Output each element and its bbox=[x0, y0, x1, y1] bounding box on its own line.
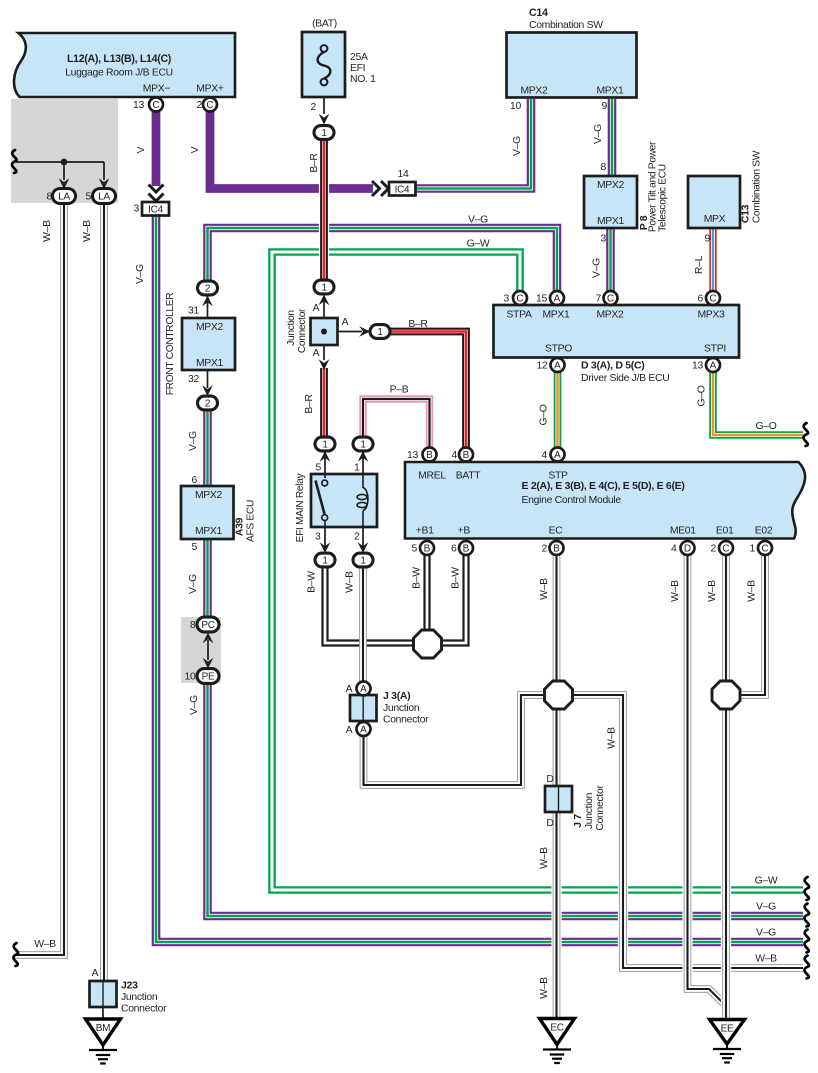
svg-text:10: 10 bbox=[510, 101, 521, 112]
svg-text:A: A bbox=[346, 684, 353, 695]
svg-text:W–B: W–B bbox=[539, 977, 550, 999]
chevron IC4 14 right bbox=[372, 181, 389, 196]
wire V thick: MPX- to chevron bbox=[152, 110, 161, 186]
svg-text:STP: STP bbox=[548, 471, 568, 482]
pin J3 A lower bbox=[357, 722, 371, 736]
svg-text:B: B bbox=[463, 450, 470, 461]
svg-text:3: 3 bbox=[504, 294, 510, 305]
break right G-O bbox=[803, 423, 808, 446]
svg-text:G–O: G–O bbox=[755, 421, 776, 432]
svg-text:Telescopic ECU: Telescopic ECU bbox=[658, 164, 669, 232]
chevron MPX- down bbox=[149, 185, 164, 202]
wire V-G row2: IC4 to bottom-right break bbox=[156, 213, 803, 942]
svg-text:W–B: W–B bbox=[539, 578, 550, 600]
wire B-R: junction to BATT bbox=[389, 332, 466, 449]
pin STP 4(A) bbox=[551, 448, 565, 462]
svg-text:A: A bbox=[710, 360, 717, 371]
arrow PE bbox=[203, 658, 214, 669]
svg-text:5: 5 bbox=[192, 542, 198, 553]
svg-text:4: 4 bbox=[452, 450, 458, 461]
svg-text:V–G: V–G bbox=[188, 431, 199, 451]
arrow relay 1 bbox=[358, 451, 369, 462]
svg-text:2: 2 bbox=[205, 398, 211, 409]
wire V-G: P8 MPX1 to 7(C) bbox=[606, 227, 615, 292]
pin STPI 13(A) bbox=[706, 358, 720, 372]
svg-text:1: 1 bbox=[354, 463, 360, 474]
wire W-B: LA 5 to J23 bbox=[100, 202, 108, 983]
svg-text:BM: BM bbox=[96, 1023, 110, 1034]
svg-text:6: 6 bbox=[192, 475, 198, 486]
svg-text:9: 9 bbox=[602, 101, 608, 112]
svg-text:5: 5 bbox=[412, 544, 418, 555]
svg-text:B–W: B–W bbox=[307, 571, 318, 593]
svg-text:EFI MAIN Relay: EFI MAIN Relay bbox=[295, 472, 306, 542]
svg-text:7: 7 bbox=[596, 294, 602, 305]
svg-text:W–B: W–B bbox=[34, 939, 56, 950]
svg-text:MPX1: MPX1 bbox=[597, 216, 625, 227]
wire W-B: LA 8 to left break bbox=[15, 202, 64, 955]
FRONT CONTROLLER labels bbox=[165, 293, 224, 396]
connector circle 2 lower bbox=[198, 396, 218, 410]
wire name labels horizontal bbox=[34, 215, 778, 965]
svg-text:25A: 25A bbox=[350, 52, 368, 63]
svg-text:PC: PC bbox=[201, 620, 214, 631]
fuse title bbox=[312, 19, 337, 30]
FRONT CONTROLLER box bbox=[182, 318, 235, 370]
Driver Side J/B ECU box D3(A) D5(C) bbox=[494, 305, 740, 358]
svg-text:E01: E01 bbox=[716, 526, 734, 537]
arrow to circle below fuse bbox=[319, 114, 330, 125]
svg-text:W–B: W–B bbox=[539, 847, 550, 869]
svg-text:W–B: W–B bbox=[345, 571, 356, 593]
svg-text:V–G: V–G bbox=[756, 928, 776, 939]
junction connector box mid bbox=[311, 318, 338, 345]
relay switch symbol bbox=[316, 474, 328, 527]
wire G-W: STPA to bottom-right break bbox=[272, 252, 803, 890]
svg-text:Combination SW: Combination SW bbox=[529, 20, 603, 31]
svg-text:V–G: V–G bbox=[189, 695, 200, 715]
svg-text:E 2(A), E 3(B), E 4(C), E 5(D): E 2(A), E 3(B), E 4(C), E 5(D), E 6(E) bbox=[522, 480, 685, 492]
svg-text:C14: C14 bbox=[529, 7, 548, 19]
pin +B1 5(B) bbox=[420, 541, 434, 555]
wire V-G: IC4 14 to C14 MPX2 bbox=[414, 99, 531, 189]
ground symbol BM bbox=[89, 1045, 117, 1064]
svg-text:Junction: Junction bbox=[286, 310, 297, 346]
connector LA connector 8 bbox=[53, 189, 76, 204]
svg-text:V–G: V–G bbox=[593, 124, 604, 144]
arrow to LA 8 bbox=[59, 178, 70, 189]
svg-text:Connector: Connector bbox=[297, 308, 308, 353]
wire G-O: STPO to STP bbox=[554, 371, 562, 448]
connector circle 1 relay 1 bbox=[353, 437, 373, 451]
connector circle 1 relay 5 bbox=[315, 437, 335, 451]
pin MPX1 15(A) bbox=[550, 291, 564, 305]
J7 junction connector box bbox=[545, 786, 572, 812]
wire W-B: octagon EC to bottom-right break bbox=[571, 695, 803, 968]
svg-text:2: 2 bbox=[197, 100, 203, 111]
svg-text:A: A bbox=[342, 317, 349, 328]
C14 title bbox=[520, 7, 624, 97]
svg-text:B: B bbox=[424, 543, 431, 554]
svg-text:C: C bbox=[722, 543, 729, 554]
svg-text:Luggage Room J/B ECU: Luggage Room J/B ECU bbox=[65, 68, 173, 79]
C14 Combination SW box bbox=[507, 33, 637, 98]
connector PC connector bbox=[197, 617, 219, 632]
svg-text:B–R: B–R bbox=[304, 394, 315, 414]
svg-text:2: 2 bbox=[542, 544, 548, 555]
connector PE connector bbox=[197, 669, 219, 684]
svg-text:MPX2: MPX2 bbox=[597, 180, 625, 191]
svg-text:A: A bbox=[360, 684, 367, 695]
svg-text:MPX1: MPX1 bbox=[195, 526, 223, 537]
driver side labels bbox=[506, 310, 726, 385]
wire name labels rotated bbox=[42, 124, 758, 999]
pin MPX2 7(C) bbox=[604, 291, 618, 305]
svg-text:C13: C13 bbox=[741, 204, 752, 223]
svg-text:V–G: V–G bbox=[592, 258, 603, 278]
wire stub to LA 5 bbox=[103, 162, 105, 180]
svg-text:B–W: B–W bbox=[412, 567, 423, 589]
wire R-L: C13 MPX to 6(C) bbox=[709, 227, 716, 292]
svg-text:P–B: P–B bbox=[390, 385, 409, 396]
relay coil symbol bbox=[357, 474, 368, 527]
svg-text:B–W: B–W bbox=[451, 567, 462, 589]
svg-text:(BAT): (BAT) bbox=[312, 19, 337, 30]
wire W-B: E02 to octagon bbox=[740, 554, 765, 695]
wire junction connector stub right bbox=[337, 331, 362, 333]
svg-text:J23: J23 bbox=[121, 980, 138, 992]
svg-text:G–O: G–O bbox=[539, 404, 550, 425]
IC4 14 text bbox=[395, 185, 410, 196]
IC4 connector 3 bbox=[142, 202, 169, 216]
ground symbol EC bbox=[543, 1045, 571, 1064]
wire junction connector stub down bbox=[323, 345, 325, 360]
arrow junction stub right bbox=[359, 326, 370, 337]
svg-text:6: 6 bbox=[698, 294, 704, 305]
svg-text:D: D bbox=[546, 818, 553, 829]
wire FC top stub bbox=[207, 296, 209, 318]
fuse rating label bbox=[350, 52, 376, 85]
svg-text:MREL: MREL bbox=[418, 471, 446, 482]
svg-text:W–B: W–B bbox=[747, 580, 758, 602]
pin E01 2(C) bbox=[719, 541, 733, 555]
wire P-B: relay 1 to MREL bbox=[363, 399, 430, 448]
pin MPX3 6(C) bbox=[706, 291, 720, 305]
svg-text:MPX2: MPX2 bbox=[596, 310, 624, 321]
svg-text:W–B: W–B bbox=[755, 954, 777, 965]
svg-text:EE: EE bbox=[721, 1024, 734, 1035]
svg-text:IC4: IC4 bbox=[395, 185, 410, 196]
svg-text:B: B bbox=[553, 543, 560, 554]
pin E02 1(C) bbox=[758, 541, 772, 555]
arrow junction stub down bbox=[319, 359, 330, 370]
svg-text:C: C bbox=[206, 100, 213, 111]
svg-text:4: 4 bbox=[671, 544, 677, 555]
svg-text:13: 13 bbox=[133, 100, 144, 111]
wire V-G top row: MPX1 15(A) to circle 2 bbox=[208, 228, 558, 292]
pin EC 2(B) bbox=[550, 541, 564, 555]
svg-text:MPX2: MPX2 bbox=[195, 490, 223, 501]
svg-text:R–L: R–L bbox=[694, 255, 705, 274]
wire B-W: +B1 to octagon bbox=[423, 554, 430, 632]
svg-text:5: 5 bbox=[86, 192, 92, 203]
svg-text:B–R: B–R bbox=[408, 319, 428, 330]
break right V-G1 bbox=[804, 904, 809, 927]
svg-text:Engine Control Module: Engine Control Module bbox=[522, 495, 622, 506]
EFI MAIN Relay box bbox=[311, 474, 377, 527]
wire relay pin 2 stub bbox=[362, 527, 364, 546]
svg-text:FRONT CONTROLLER: FRONT CONTROLLER bbox=[165, 293, 176, 396]
svg-text:A: A bbox=[313, 303, 320, 314]
break left bottom bbox=[13, 943, 18, 966]
svg-text:Connector: Connector bbox=[595, 785, 606, 831]
arrow FC lower bbox=[202, 385, 213, 396]
svg-text:A: A bbox=[554, 450, 561, 461]
pin number labels bbox=[47, 100, 756, 683]
svg-text:C: C bbox=[607, 293, 614, 304]
svg-text:C: C bbox=[516, 293, 523, 304]
arrow junction stub up bbox=[319, 295, 330, 306]
svg-text:MPX+: MPX+ bbox=[196, 84, 224, 95]
svg-text:LA: LA bbox=[98, 191, 110, 202]
arrow FC upper bbox=[202, 296, 213, 307]
svg-text:Connector: Connector bbox=[121, 1004, 167, 1015]
IC4 3 text bbox=[148, 205, 163, 216]
wire relay pin 5 stub bbox=[324, 451, 326, 475]
arrow PC bbox=[203, 633, 214, 644]
svg-text:32: 32 bbox=[188, 374, 199, 385]
wire W-B: E01 to EE ground bbox=[721, 554, 731, 1020]
gray shade box upper-left bbox=[11, 99, 118, 203]
svg-text:2: 2 bbox=[311, 102, 317, 113]
svg-text:B–R: B–R bbox=[309, 153, 320, 173]
svg-text:1: 1 bbox=[750, 544, 756, 555]
svg-text:MPX1: MPX1 bbox=[542, 310, 570, 321]
svg-text:V: V bbox=[190, 146, 201, 153]
connector circle 1 right of junction bbox=[370, 325, 390, 339]
svg-text:EC: EC bbox=[549, 526, 564, 537]
wire W-B: relay 2 to J3 bbox=[359, 566, 367, 684]
break right V-G2 bbox=[804, 930, 809, 953]
svg-text:9: 9 bbox=[705, 234, 711, 245]
svg-text:1: 1 bbox=[321, 128, 327, 139]
A39 AFS ECU box bbox=[181, 486, 234, 539]
svg-text:BATT: BATT bbox=[456, 471, 482, 482]
svg-text:A: A bbox=[313, 348, 320, 359]
junction connector labels bbox=[286, 303, 349, 359]
wire FC bottom stub bbox=[207, 370, 209, 388]
svg-text:13: 13 bbox=[407, 450, 418, 461]
connector circle 1 relay 3 bbox=[315, 553, 335, 567]
pin +B 6(B) bbox=[459, 541, 473, 555]
wire V-G: C14 MPX1 to P8 MPX2 bbox=[608, 99, 617, 177]
svg-text:Driver Side J/B ECU: Driver Side J/B ECU bbox=[581, 373, 669, 384]
svg-text:STPI: STPI bbox=[704, 344, 726, 355]
J23 labels bbox=[92, 968, 167, 1015]
svg-text:A: A bbox=[360, 724, 367, 735]
svg-text:G–W: G–W bbox=[467, 239, 490, 250]
connector circle 1 relay 2 bbox=[353, 553, 373, 567]
J23 junction connector box bbox=[90, 981, 117, 1007]
svg-text:+B1: +B1 bbox=[416, 526, 434, 537]
svg-text:G–O: G–O bbox=[697, 385, 708, 406]
wire relay pin 3 stub bbox=[324, 527, 326, 546]
svg-text:MPX3: MPX3 bbox=[697, 310, 725, 321]
svg-text:C: C bbox=[761, 543, 768, 554]
svg-text:EFI: EFI bbox=[350, 63, 365, 74]
svg-text:MPX−: MPX− bbox=[143, 84, 171, 95]
relay title bbox=[295, 472, 306, 542]
break right W-B bbox=[804, 956, 809, 979]
svg-text:Junction: Junction bbox=[121, 992, 158, 1003]
pin STPO 12(A) bbox=[551, 358, 565, 372]
svg-text:6: 6 bbox=[451, 544, 457, 555]
arrow relay 3 bbox=[320, 542, 331, 553]
break left top bbox=[12, 150, 17, 173]
svg-text:D 3(A), D 5(C): D 3(A), D 5(C) bbox=[581, 360, 644, 372]
gray shade box PC/PE bbox=[181, 617, 221, 683]
svg-text:J 3(A): J 3(A) bbox=[383, 690, 410, 702]
fuse box 25A EFI NO.1 bbox=[302, 32, 345, 97]
wire gray box bus bbox=[13, 161, 104, 163]
svg-text:3: 3 bbox=[315, 532, 321, 543]
wire relay pin 1 stub bbox=[362, 451, 364, 475]
svg-text:L12(A), L13(B), L14(C): L12(A), L13(B), L14(C) bbox=[67, 53, 171, 65]
svg-text:A39: A39 bbox=[235, 517, 246, 536]
svg-text:W–B: W–B bbox=[670, 580, 681, 602]
svg-text:V–G: V–G bbox=[188, 574, 199, 594]
svg-text:MPX2: MPX2 bbox=[520, 86, 548, 97]
connector circle 2 upper bbox=[198, 281, 218, 295]
arrow to LA 5 bbox=[99, 178, 110, 189]
svg-text:Junction: Junction bbox=[584, 792, 595, 829]
svg-text:V–G: V–G bbox=[512, 136, 523, 156]
svg-text:W–B: W–B bbox=[42, 220, 53, 242]
svg-text:31: 31 bbox=[188, 306, 199, 317]
junction dot gray box bbox=[61, 159, 68, 166]
svg-text:1: 1 bbox=[322, 555, 328, 566]
svg-text:+B: +B bbox=[458, 526, 471, 537]
svg-text:2: 2 bbox=[354, 532, 360, 543]
wire W-B: J3 to octagon EC bbox=[364, 695, 547, 785]
P8 Power Tilt and Power Telescopic ECU box bbox=[584, 176, 637, 228]
A39 labels bbox=[195, 490, 257, 542]
ground triangle EE bbox=[710, 1020, 745, 1045]
connector LA connector 5 bbox=[93, 189, 116, 204]
wire stub to LA 8 bbox=[63, 162, 65, 180]
svg-text:NO. 1: NO. 1 bbox=[350, 74, 376, 85]
svg-text:2: 2 bbox=[711, 544, 717, 555]
svg-text:V–G: V–G bbox=[756, 902, 776, 913]
J3(A) junction connector box bbox=[350, 695, 377, 721]
svg-text:10: 10 bbox=[185, 672, 196, 683]
svg-text:8: 8 bbox=[47, 192, 53, 203]
connector circle 1 below fuse bbox=[314, 126, 334, 140]
wire junction connector stub up bbox=[323, 297, 325, 318]
wire B-R: fuse to junction connector bbox=[319, 141, 329, 280]
svg-text:W–B: W–B bbox=[707, 580, 718, 602]
Luggage Room J/B ECU box L12(A) L13(B) L14(C) bbox=[14, 33, 235, 97]
svg-text:G–W: G–W bbox=[755, 876, 778, 887]
wire V thick: MPX+ to IC4 14 bbox=[210, 110, 373, 189]
svg-text:Connector: Connector bbox=[383, 715, 429, 726]
ground triangle EC bbox=[540, 1019, 575, 1045]
svg-text:4: 4 bbox=[542, 450, 548, 461]
IC4 connector 14 bbox=[389, 182, 416, 196]
svg-text:3: 3 bbox=[134, 204, 140, 215]
J3 labels bbox=[346, 684, 429, 736]
octagon node +B bbox=[414, 630, 442, 658]
svg-text:W–B: W–B bbox=[82, 220, 93, 242]
svg-text:5: 5 bbox=[316, 463, 322, 474]
wire V-G: circle 2 lower to PC bbox=[203, 410, 212, 622]
svg-text:1: 1 bbox=[322, 439, 328, 450]
svg-text:8: 8 bbox=[601, 162, 607, 173]
svg-text:IC4: IC4 bbox=[148, 205, 163, 216]
svg-text:LA: LA bbox=[58, 191, 70, 202]
wire W-B: ME01 to EE bbox=[688, 554, 727, 1006]
svg-text:A: A bbox=[346, 725, 353, 736]
wire B-W: +B to octagon bbox=[440, 554, 466, 643]
svg-text:13: 13 bbox=[692, 361, 703, 372]
svg-text:B: B bbox=[426, 450, 433, 461]
octagon node E01 bbox=[712, 681, 740, 709]
fuse symbol bbox=[318, 45, 331, 85]
svg-text:2: 2 bbox=[205, 283, 211, 294]
junction connector dot bbox=[321, 329, 327, 335]
svg-text:D: D bbox=[684, 543, 691, 554]
break right G-W bbox=[804, 877, 809, 900]
svg-text:C: C bbox=[709, 293, 716, 304]
svg-text:MPX1: MPX1 bbox=[596, 86, 624, 97]
svg-text:1: 1 bbox=[360, 439, 366, 450]
P8 labels bbox=[597, 141, 669, 232]
ECM labels bbox=[416, 471, 773, 537]
ground symbol EE bbox=[713, 1044, 741, 1063]
wire PC-PE link bbox=[207, 640, 209, 660]
svg-text:E02: E02 bbox=[755, 526, 773, 537]
C13 labels bbox=[704, 150, 763, 225]
octagon node EC bbox=[545, 681, 573, 709]
connector circle 1 above junction bbox=[314, 280, 334, 294]
svg-text:A: A bbox=[554, 293, 561, 304]
Luggage box title bbox=[65, 53, 224, 95]
wire G-O: STPI to right break bbox=[713, 371, 803, 435]
svg-text:1: 1 bbox=[377, 327, 383, 338]
svg-text:MPX: MPX bbox=[704, 214, 726, 225]
wire V-G row1: PE to bottom-right break bbox=[208, 681, 804, 916]
svg-text:12: 12 bbox=[537, 361, 548, 372]
svg-text:PE: PE bbox=[202, 671, 215, 682]
svg-text:J 7: J 7 bbox=[572, 814, 584, 828]
svg-text:V–G: V–G bbox=[468, 215, 488, 226]
pin STPA 3(C) bbox=[513, 291, 527, 305]
svg-text:EC: EC bbox=[550, 1023, 563, 1034]
svg-text:C: C bbox=[152, 100, 159, 111]
pin BATT 4(B) bbox=[459, 448, 473, 462]
Engine Control Module box E2(A) E3(B) E4(C) E5(D) E6(E) bbox=[405, 462, 805, 539]
svg-text:B: B bbox=[463, 543, 470, 554]
svg-text:D: D bbox=[546, 774, 553, 785]
arrow relay 2 bbox=[358, 542, 369, 553]
arrow relay 5 bbox=[320, 451, 331, 462]
svg-text:ME01: ME01 bbox=[670, 526, 696, 537]
pin MPX+ 2(C) bbox=[203, 98, 217, 112]
svg-text:MPX2: MPX2 bbox=[196, 322, 224, 333]
wire J23 to BM bbox=[102, 1007, 104, 1020]
svg-text:14: 14 bbox=[398, 169, 409, 180]
svg-text:MPX1: MPX1 bbox=[196, 358, 224, 369]
